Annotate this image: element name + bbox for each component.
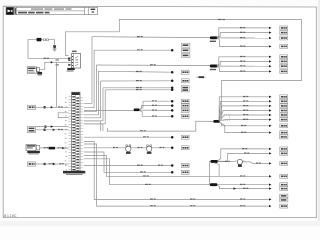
wire code label [150,199,156,200]
wire S3 branch y96 [219,97,269,121]
wire code label [241,125,246,126]
connector label C-165 [181,164,189,168]
junction dot L-129 [43,129,46,132]
arrowhead L-129 [53,129,56,131]
wire ECU pin to splice S6 [84,109,133,111]
junction dot K1 [171,100,174,103]
wire to junction J2 [101,80,172,82]
connector label R-101 [280,99,288,103]
wire S2 branch row 61 [217,61,269,65]
wire code label [243,105,248,106]
junction dot row 165 [171,164,174,167]
connector label extra 136 [280,135,288,139]
connector label C-116 [181,114,189,118]
junction dot K4 [171,115,174,118]
wire riser to ECU pin 3 [84,65,96,111]
wire module to relay [39,62,50,69]
arrowhead into relay pin 30 [68,57,71,59]
junction dot J0 [171,49,174,52]
wire W-C to junction J0 [94,49,172,51]
wire code label [140,171,146,172]
connector label L-107 [28,105,36,109]
connector label R-46 [280,44,288,48]
wire channel row 176 [84,156,269,177]
connector label R-199 double [280,194,288,202]
wire S3 branch y115 [219,115,269,121]
wire code label [152,105,157,106]
wire code label [113,147,118,148]
wire code label [152,115,157,116]
connector label R-163 [280,161,288,165]
wire channel row 199 [84,142,269,200]
connector label R-61 [280,59,288,63]
wire code label [240,65,245,66]
wire code label [243,114,248,115]
wire riser to ECU pin 5 [84,81,101,118]
wire code label [145,184,151,185]
title text row 2 [18,12,50,14]
connector label R-105 [280,104,288,108]
wire L-107 to ECU [36,106,69,108]
wire channel row 185 [84,159,269,185]
wire code label [137,165,143,166]
junction dot K3 [171,109,174,112]
splice S6 [134,109,140,112]
connector label R-38 [280,36,288,40]
wire code label [137,49,143,50]
wire S1 branch row 28 [217,28,269,37]
arrowhead row 110 [269,109,272,111]
wire code label [240,71,245,72]
wire L-164 to ECU [36,163,69,165]
arrowhead row 61 [269,60,272,62]
wire S4 branch row 149 [218,149,269,161]
connector label R-71 [280,69,288,73]
title block outline [6,7,98,14]
wire S6 branch row 106 [140,106,172,110]
arrowhead row 176 [269,175,272,177]
arrowhead row 115 [269,114,272,116]
wire code label [58,129,63,130]
wire code label [225,161,230,162]
junction dot J2 [171,80,174,83]
junction dot L-126 [44,125,47,128]
connector label C-105 [181,104,189,108]
wire code label [160,147,165,148]
connector label C-55 [182,53,190,57]
arrowhead relay pin 85 [68,59,71,61]
wire motor to row 163 [243,162,269,164]
wire code label [256,163,261,164]
arrowhead row 189 [269,187,272,189]
connector label R-153 [280,151,288,155]
wire S2 branch row 71 [217,67,269,72]
junction dot J4 [171,89,174,92]
wire code label [243,100,248,101]
component box above splice S3 [220,115,230,121]
arrowhead row 38 [269,37,272,39]
wire code label [150,205,156,206]
wire riser to ECU pin 7 [84,90,105,124]
svg-text:8 1 1VC: 8 1 1VC [4,214,17,218]
splice S2 [210,65,217,68]
arrowhead row 46 [269,45,272,47]
wire code label [136,87,142,88]
connector label C-101 [181,99,189,103]
arrowhead row 56 [269,56,272,58]
wire code label [136,89,142,90]
connector label C-45 [182,43,190,47]
wire code label [158,165,163,166]
connector label R-119 [280,118,288,122]
junction dot J1 [171,71,174,74]
ECU connector code bar [63,171,85,175]
connector label R-185 [280,183,288,187]
wire W-D joining splice S2 feed [96,64,210,67]
splice S2 code label [210,69,216,70]
wire code label [44,147,48,148]
wire label on battery feed [44,58,50,59]
wire code label [240,184,245,185]
wire S3 branch y101 [219,101,269,120]
wire to junction J4 [105,89,172,91]
arrowhead L-107 [51,106,54,108]
wire tee to row 107 [56,62,58,107]
wire battery to relay [28,57,69,59]
connector label C-88 double [181,86,189,92]
wire code label [243,119,248,120]
connector label C-50 [182,48,190,52]
connector label R-206 [280,204,288,208]
connector label R-149 [280,147,288,151]
wire code label [243,188,248,189]
horn H2 [146,145,151,154]
fuse F1 [37,38,42,41]
inline diode D1 [49,147,55,150]
connector label R-125 [280,124,288,128]
wire S6 branch row 101 [140,101,172,109]
arrowhead L-164 [53,163,56,165]
wire L-126 to ECU [36,126,69,128]
arrowhead row 71 [269,70,272,72]
wire code label [60,163,64,164]
wire row 148 [84,147,172,149]
connector label R-96 [280,95,288,99]
junction dot row 148 [171,147,174,150]
arrowhead into relay pin 86 [51,61,54,63]
wire code label [136,80,142,81]
wire relay feed routed to splice S3 [65,20,301,120]
wire riser stub and row 131 to splice S3 [107,121,213,131]
pin number labels at relay [56,59,59,65]
connector label C-80 [181,79,189,83]
wire S5 to S4 riser [210,161,211,184]
wire code label [190,199,195,200]
wire to junction J1 [98,70,171,73]
wire code label [243,110,248,111]
wire code label [240,32,245,33]
wire row 165 [84,165,172,167]
wire channel row 206 [84,144,269,206]
ECU pin number text column [65,97,67,170]
wire S3 branch y119 [219,120,269,121]
wire code label [152,110,157,111]
wire S2 branch row 57 [217,57,269,66]
wire code label [240,61,245,62]
splice S1 [210,36,217,39]
arrowhead row 96 [269,96,272,98]
wire row 137 [84,136,172,138]
connector label C-110 [181,108,189,112]
wire ECU tap to bus row 131 [84,121,101,131]
wire code label [58,147,62,148]
arrowhead L-126 [51,125,54,127]
wire S4 to motor M2 [218,161,236,163]
connector label L-129 double [28,127,36,133]
arrowhead row 125 [269,125,272,127]
arrowhead row 105 [269,105,272,107]
wire S4 branch row 153 [218,153,269,161]
wire M3 to ECU [40,147,69,149]
wire code label [240,199,245,200]
wire code label [143,136,149,137]
arrowhead row 27 [269,27,272,29]
ECU pin stubs [68,97,83,171]
wire code label [240,37,245,38]
connector label L-164 [28,162,36,166]
wire S3 down branch row 133 [220,122,269,132]
ground G1 [53,45,57,51]
wire into relay pin 86 [53,61,68,63]
wire S3 down branch row 126 [220,122,269,126]
sensor module M3 [26,145,40,151]
wire code label [136,71,142,72]
connector label C-172 [181,170,189,174]
wire S3 branch y110 [219,111,269,121]
wire ECU tap 2 to bus row 131 [84,124,103,131]
arrowhead row 132 [269,131,272,133]
junction dot row 172 [171,171,174,174]
wire riser to ECU pin 1 [84,37,92,104]
sensor module code bar [27,151,40,155]
connector label R-176 [280,174,288,178]
wire S2 straight branch row 66 [217,65,269,67]
wire S1 branch row 46 [217,38,269,46]
connector label R-66 [280,64,288,68]
ECU connector X1 body [72,92,81,171]
connector label R-189 [280,187,288,191]
wire jog between ECU pins [58,113,68,118]
relay pin stubs left [69,58,72,65]
ECU pin number ladder [72,96,79,171]
wire S1 branch row 33 [217,33,269,38]
title block vertical code cell [14,7,16,14]
wire label on top run [218,19,225,20]
wire code label [243,96,248,97]
wire S3 branch y105 [219,106,269,121]
relay connector bar [67,68,75,72]
wire channel row 172 [84,152,172,172]
wire stub row 77 [196,76,206,78]
arrowhead row 66 [269,65,272,67]
splice S5 [210,183,217,186]
wire code label [241,132,246,133]
wire riser to ECU pin 4 [84,71,98,115]
connector label R-110 [280,109,288,113]
fuse holder contacts [43,39,48,41]
arrowhead row 185 [269,184,272,186]
wire code label [240,205,245,206]
arrowhead M3 [62,147,65,149]
arrowhead row 32 [269,31,272,33]
splice S3 [213,120,219,123]
splice S4 [211,160,218,163]
wire code label [190,205,195,206]
arrowhead mid row 189 [234,187,237,189]
arrowhead row 153 [269,152,272,154]
connector label C-148 [181,146,189,150]
splice S1 code label [210,41,216,42]
arrowhead row 101 [269,100,272,102]
wire riser to ECU pin 6 [84,88,103,121]
wire W-B to splice S1 [92,36,210,39]
wire riser to ECU pin 2 [84,50,94,107]
arrowhead row 199 [269,198,272,200]
horn H1 [126,145,131,154]
wire code label [150,64,156,65]
wire L-129 to ECU [36,129,69,131]
wire code label [138,147,143,148]
wire S6 straight branch row 110 [140,109,172,111]
junction dot L-107 [43,106,46,109]
wire stub into relay top pin [65,55,68,57]
connector label R-32 [280,31,288,35]
wire code label [140,130,146,131]
connector label C-137 [181,135,189,139]
wire S6 branch row 116 [140,111,172,117]
wire S4 down branch [214,163,219,177]
wire code label [244,153,249,154]
connector label R-56 [280,55,288,59]
wire code label [240,27,245,28]
junction dot L-164 [43,163,46,166]
motor M2 [235,159,244,167]
wire code label [240,56,245,57]
wire code label [49,163,53,164]
wire code label [137,36,143,37]
connector label R-115 [280,113,288,117]
wire code label [242,148,247,149]
wire S5 branch row 189 [217,185,269,188]
wire S1 straight branch row 38 [217,37,269,39]
wire code label [240,175,245,176]
wire battery loop [28,40,55,59]
relay K1 [72,54,81,69]
module connector pigtail [37,68,40,72]
control module M1 [27,67,36,73]
wire to junction J3 [103,87,172,89]
arrowhead row 119 [269,118,272,120]
wire label row 77 [199,76,205,78]
module connector code plate [37,72,42,76]
arrowhead row 149 [269,148,272,150]
junction dot row 137 [171,136,174,139]
relay K1 code label [72,51,77,53]
connector label C-72 [181,70,189,74]
arrowhead row 163 [269,162,272,164]
wire code label [240,46,245,47]
connector label R-27 [280,26,288,30]
junction dot K2 [171,104,174,107]
wire code label [58,106,63,107]
junction dot J3 [171,87,174,90]
arrowhead relay pin 87 [68,64,71,66]
wire code label [152,100,157,101]
title text row 1 [17,9,85,11]
wire code label [143,175,149,176]
logo (manufacturer) [6,8,14,15]
sheet number cell [84,7,95,14]
connector label R-132 [280,131,288,135]
arrowhead row 206 [269,205,272,207]
